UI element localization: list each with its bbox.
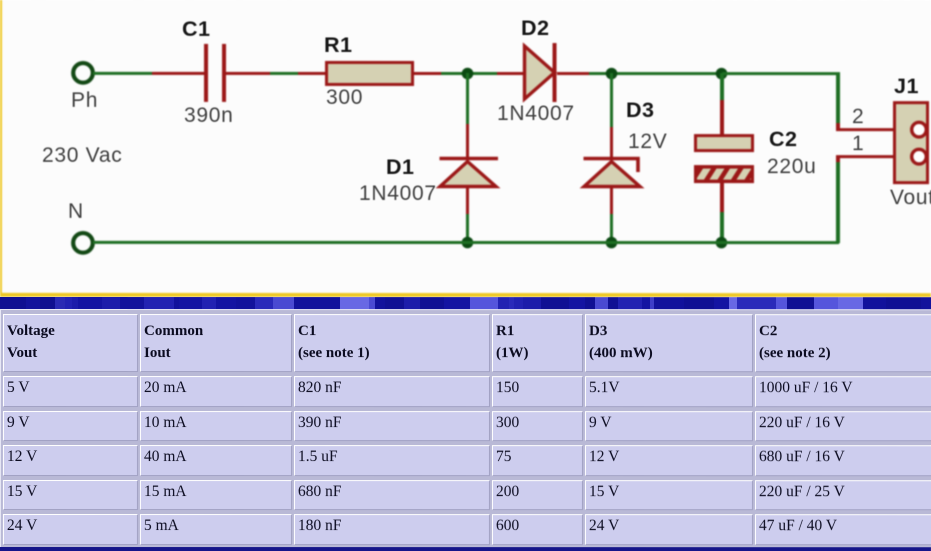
- label C1: [182, 19, 210, 39]
- label pin 1: [852, 133, 864, 154]
- J1 pin circle 2: [907, 117, 931, 141]
- label J1: [894, 76, 919, 96]
- label pin 2: [852, 106, 864, 127]
- wire D2 to node B: [589, 72, 622, 75]
- wire J1 pin2 stub red: [836, 123, 839, 129]
- wire C1 to R1: [270, 71, 298, 74]
- wire bottom rail: [93, 240, 839, 244]
- component value table: [0, 309, 931, 550]
- wire top rail Ph to C1: [93, 71, 152, 74]
- node A junction dot: [456, 62, 479, 85]
- label D3: [626, 100, 654, 120]
- wire vertical drop node A green: [466, 73, 469, 124]
- value 390n: [184, 105, 234, 126]
- diode D2: [515, 35, 570, 110]
- schematic text labels layer: [0, 0, 931, 297]
- junction dot bottom C: [710, 231, 733, 254]
- wire R1 left lead: [298, 71, 326, 74]
- value 12V: [628, 131, 667, 152]
- node B junction dot: [600, 62, 623, 85]
- resistor R1: [325, 61, 414, 86]
- circuit schematic area: [0, 0, 931, 297]
- wire J1 pin1 stub red: [836, 155, 894, 158]
- wire D1 anode lead red: [466, 187, 469, 214]
- terminal Ph: [68, 58, 98, 88]
- capacitor C2 bottom plate hatched: [694, 165, 754, 183]
- capacitor C1: [204, 44, 208, 102]
- label 230 Vac: [42, 145, 122, 166]
- capacitor C2 top plate: [694, 134, 754, 152]
- value Vout: [890, 187, 931, 208]
- value 1N4007 D2: [497, 103, 575, 124]
- wire C1 left lead: [152, 71, 205, 74]
- wire D1 cathode lead red: [466, 124, 469, 158]
- wire D3 to bottom rail green: [610, 214, 613, 242]
- node C junction dot: [710, 62, 733, 85]
- wire vertical drop node B green: [610, 73, 613, 127]
- decorative blue bar: [0, 297, 931, 311]
- value 220u: [767, 156, 817, 177]
- value 1N4007 D1: [359, 183, 437, 204]
- wire vertical drop node C green: [720, 73, 723, 100]
- connector J1: [893, 101, 929, 184]
- value 300: [326, 87, 363, 108]
- label N: [68, 201, 84, 222]
- navy strip over table bottom spacing: [0, 547, 931, 551]
- wire D2 anode lead: [497, 72, 525, 75]
- junction dot bottom B: [600, 231, 623, 254]
- wire C2 bottom lead red: [720, 183, 723, 212]
- lower section navy background: [0, 297, 931, 551]
- diode D1: [435, 150, 503, 195]
- label R1: [324, 35, 352, 55]
- wire C2 top lead red: [720, 100, 723, 134]
- label D1: [386, 157, 414, 177]
- terminal N: [68, 228, 98, 258]
- wire R1 to node A: [441, 71, 497, 74]
- wire right vertical lower green: [836, 162, 839, 243]
- label C2: [769, 129, 797, 149]
- border frame bottom yellow: [0, 293, 931, 297]
- junction dot bottom A: [456, 231, 479, 254]
- wire D3 anode lead red: [610, 187, 613, 214]
- label D2: [521, 18, 549, 38]
- wire C2 to bottom rail green: [720, 212, 723, 242]
- zener D3: [579, 150, 647, 195]
- wire D2 cathode lead: [557, 72, 589, 75]
- border frame left yellow: [0, 0, 2, 297]
- wire C1 right lead: [225, 71, 270, 74]
- wire D3 cathode lead red: [610, 127, 613, 158]
- wire R1 right lead: [414, 71, 441, 74]
- label Ph: [71, 90, 98, 111]
- wire right vertical upper green: [836, 72, 839, 124]
- wire D1 to bottom rail green: [466, 214, 469, 242]
- wire node C to right corner: [722, 72, 840, 75]
- J1 pin circle 1: [907, 144, 931, 168]
- wire node B to node C: [622, 72, 722, 75]
